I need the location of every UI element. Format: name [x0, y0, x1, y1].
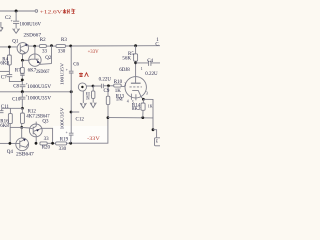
svg-text:-33V: -33V	[87, 137, 100, 142]
wire Q4 base rail	[0, 142, 16, 144]
node dot C6/C12 on bus	[70, 90, 73, 93]
wire R16 bottom lead	[9, 124, 11, 144]
glyphs 输入 (input)	[79, 73, 88, 77]
svg-text:C10: C10	[12, 97, 21, 102]
svg-text:1000U35V: 1000U35V	[27, 85, 51, 90]
capacitor C9	[101, 84, 103, 89]
capacitor C2	[13, 20, 19, 22]
svg-text:33: 33	[42, 50, 48, 55]
tube heater pin stubs	[131, 94, 136, 101]
tube cathode	[132, 90, 143, 99]
svg-text:Q2: Q2	[45, 56, 52, 61]
node dot C10/R12	[21, 107, 24, 110]
wire Q2 emitter vertical	[51, 46, 53, 64]
node dot R16/Q4 base	[9, 142, 12, 145]
svg-text:2SB647: 2SB647	[16, 152, 34, 157]
wire R12 bottom lead	[21, 123, 23, 127]
svg-text:3: 3	[146, 92, 148, 96]
svg-text:1M: 1M	[116, 98, 124, 103]
svg-text:100U35V: 100U35V	[60, 62, 65, 85]
transistor Q1	[17, 43, 28, 54]
node dot (Q1 coll/Q2 base/R7)	[21, 59, 24, 62]
wire C7 to R7 node	[9, 77, 22, 82]
wire -33V rail bottom	[67, 118, 108, 144]
svg-text:R10: R10	[114, 80, 123, 85]
svg-text:+33V: +33V	[88, 50, 99, 55]
svg-text:1000U35V: 1000U35V	[27, 96, 51, 101]
svg-text:Q1: Q1	[12, 39, 19, 44]
svg-text:8K2: 8K2	[132, 107, 141, 112]
svg-text:2: 2	[124, 83, 126, 87]
node dot on +12.6V rail	[15, 10, 18, 13]
resistor R12	[21, 113, 25, 123]
resistor R19	[40, 142, 47, 145]
svg-text:56K: 56K	[122, 56, 131, 61]
svg-text:C6: C6	[73, 63, 79, 68]
wire Q1 base rail	[0, 46, 17, 48]
wire Q3 base	[22, 126, 30, 129]
resistor R4	[7, 55, 11, 65]
svg-text:Q4: Q4	[7, 150, 14, 155]
glyphs 灯丝 (heater)	[63, 9, 75, 14]
wire C11 to R12 node	[2, 107, 23, 109]
node dot -33V corner	[107, 116, 110, 119]
svg-text:6K8: 6K8	[0, 62, 9, 67]
tube U1 6DJ8	[125, 77, 146, 98]
resistor R3	[56, 45, 66, 48]
capacitor under R7	[20, 73, 24, 75]
svg-text:R7: R7	[15, 68, 21, 73]
svg-text:33: 33	[44, 137, 50, 142]
node dot C8/C10 on bus	[21, 90, 24, 93]
white patch lower-middle	[53, 126, 108, 143]
wire cathode to right vertical	[143, 99, 153, 129]
node dot input/R11	[92, 85, 95, 88]
wire jack to input node	[87, 85, 94, 87]
wire R13 bottom lead	[107, 105, 109, 118]
wire Q2 base from node	[22, 59, 28, 61]
svg-text:2SD667: 2SD667	[36, 70, 50, 75]
node dot cathode/R14	[142, 98, 145, 101]
svg-text:330: 330	[58, 50, 66, 55]
wire R5 top lead	[135, 46, 137, 54]
wire Q1 emitter to node	[28, 44, 40, 46]
wire R19 to node	[47, 142, 55, 144]
wire +12.6V rail	[0, 10, 35, 12]
node Q1 base dot	[8, 46, 11, 49]
wire R4 top lead	[8, 47, 10, 55]
capacitor C11 (left edge)	[0, 108, 4, 112]
capacitor C12	[69, 92, 74, 143]
node terminal +12.6V	[35, 10, 38, 13]
svg-text:1K: 1K	[148, 104, 153, 108]
tube grid (dashed)	[130, 86, 142, 88]
wire to connector box	[153, 130, 157, 138]
svg-text:1: 1	[141, 67, 143, 71]
resistor R13	[107, 86, 109, 96]
node dot C6 top	[69, 45, 72, 48]
wire C9 to R13 node	[103, 85, 113, 87]
node dot R14 bottom	[141, 116, 144, 119]
wire R16 top lead	[9, 108, 11, 113]
wire R2 to node B	[46, 45, 56, 47]
wire R4 bottom lead	[8, 65, 10, 75]
ground (left edge cropped)	[0, 22, 3, 31]
node dot B (R2/R3 junction)	[50, 44, 53, 47]
wire Q1 collector down	[22, 54, 24, 60]
svg-text:0.22U: 0.22U	[145, 72, 158, 77]
svg-text:C9: C9	[104, 89, 110, 94]
svg-text:6DJ8: 6DJ8	[119, 68, 130, 73]
capacitor C7	[7, 74, 13, 76]
node dot R12/Q4 top	[20, 126, 23, 129]
wire Q2 collector lead	[34, 46, 36, 54]
svg-text:C7: C7	[1, 76, 7, 81]
svg-text:4K7: 4K7	[26, 114, 35, 119]
resistor R2	[39, 45, 46, 48]
transistor Q3	[29, 124, 42, 137]
wire C2 lead	[15, 11, 17, 21]
ground (below C2)	[13, 29, 20, 34]
resistor R11	[92, 86, 94, 91]
svg-text:100U35V: 100U35V	[60, 106, 65, 129]
svg-text:4: 4	[127, 99, 129, 103]
svg-text:0.22U: 0.22U	[99, 78, 112, 83]
node dot C12 bottom	[69, 142, 72, 145]
resistor R5	[134, 54, 138, 61]
wire plate lead from R5 node	[135, 63, 137, 83]
svg-text:R19: R19	[60, 137, 69, 142]
resistor R10	[114, 84, 122, 87]
svg-text:C8: C8	[13, 84, 19, 89]
wire input node to C9	[93, 85, 101, 87]
svg-text:C4: C4	[147, 59, 153, 64]
wire negative rail to right	[108, 117, 153, 119]
capacitor C6	[69, 46, 74, 92]
tube plate	[131, 82, 141, 84]
node dot Q4/R19	[35, 142, 38, 145]
transistor Q2	[29, 54, 41, 66]
svg-text:+: +	[11, 19, 13, 23]
wire Q4 collector top lead	[21, 127, 23, 138]
svg-text:1000U16V: 1000U16V	[20, 23, 42, 28]
ground (input jack)	[80, 91, 86, 108]
capacitor C4	[136, 61, 160, 66]
transistor Q4	[16, 138, 29, 151]
resistor R16	[8, 114, 12, 124]
node dot A (Q1 emitter / R2 / Q2 collector)	[33, 45, 36, 48]
svg-text:6K8: 6K8	[0, 124, 9, 129]
svg-text:R3: R3	[61, 38, 67, 43]
wire ground bus	[0, 91, 72, 93]
node dot R19/R20/Q3 emitter	[51, 142, 54, 145]
node dot R5 top	[134, 44, 137, 47]
wire ground stub right of C12	[71, 111, 79, 113]
svg-text:+: +	[66, 130, 68, 134]
svg-text:+12.6V: +12.6V	[40, 10, 63, 15]
svg-text:R2: R2	[40, 38, 46, 43]
node dot output lower right	[152, 128, 155, 131]
wire node to R16 column	[10, 126, 22, 128]
svg-text:+: +	[66, 68, 68, 72]
svg-text:R20: R20	[42, 146, 51, 151]
node dot plate/C4	[134, 61, 137, 64]
resistor R14	[142, 99, 144, 103]
node dot C9/R13	[107, 84, 110, 87]
capacitor C10	[21, 92, 23, 97]
ground (R11)	[90, 98, 96, 107]
wire left stub at 71.4	[0, 70, 9, 72]
wire R12 top lead	[21, 108, 23, 113]
node dot R7/C8	[21, 79, 24, 82]
node input jack	[78, 83, 86, 91]
wire Q3 emitter L to node	[42, 128, 53, 143]
connector box (cropped right edge)	[155, 138, 162, 146]
wire R7 top lead	[21, 60, 23, 67]
svg-text:Q3: Q3	[42, 119, 49, 124]
wire +33V rail	[66, 45, 161, 47]
wire R10 to tube grid	[121, 85, 125, 87]
resistor R20	[56, 142, 67, 145]
svg-text:330: 330	[59, 147, 67, 152]
svg-text:C11: C11	[1, 105, 10, 110]
svg-text:1M: 1M	[86, 96, 90, 101]
svg-text:C12: C12	[76, 117, 85, 122]
paper background	[0, 0, 160, 160]
resistor R7	[20, 67, 24, 73]
capacitor C8	[20, 84, 26, 86]
node dot C12 mid	[70, 111, 73, 114]
